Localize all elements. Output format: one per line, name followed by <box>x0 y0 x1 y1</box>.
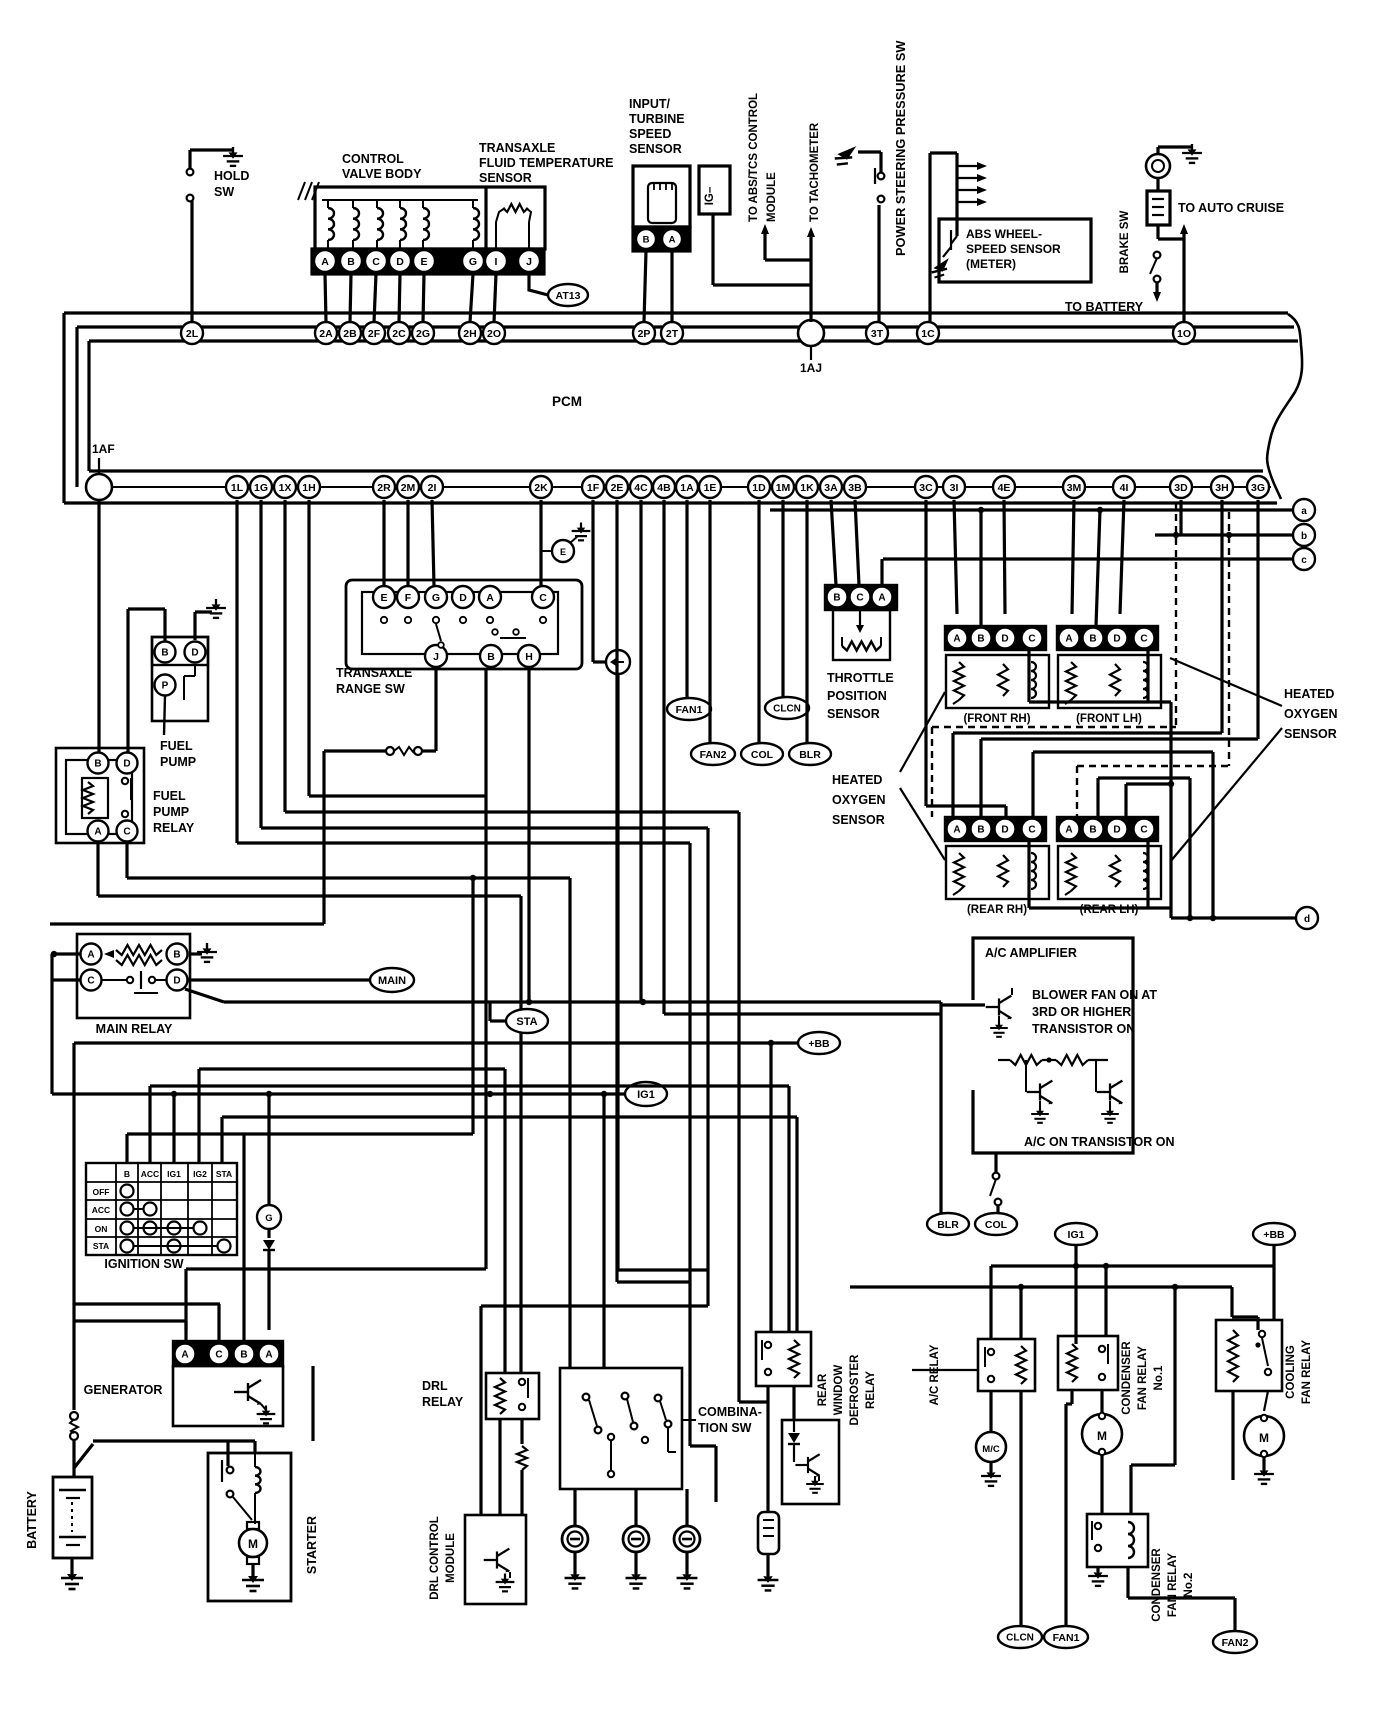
svg-text:C: C <box>1028 634 1035 645</box>
svg-text:B: B <box>124 1169 130 1179</box>
svg-text:H: H <box>525 651 533 663</box>
svg-text:OXYGEN: OXYGEN <box>1284 707 1338 721</box>
svg-text:B: B <box>977 634 984 645</box>
svg-text:FAN RELAY: FAN RELAY <box>1167 1553 1179 1617</box>
svg-text:CONDENSER: CONDENSER <box>1121 1341 1133 1415</box>
svg-text:(REAR LH): (REAR LH) <box>1080 904 1139 916</box>
svg-text:D: D <box>1113 634 1120 645</box>
svg-text:B: B <box>643 234 650 245</box>
svg-text:1G: 1G <box>254 482 268 494</box>
svg-text:a: a <box>1301 506 1307 517</box>
svg-text:DEFROSTER: DEFROSTER <box>849 1354 861 1426</box>
svg-text:D: D <box>173 976 180 987</box>
svg-text:1L: 1L <box>231 482 244 494</box>
svg-text:B: B <box>94 759 101 770</box>
svg-text:FAN2: FAN2 <box>1222 1637 1249 1649</box>
svg-text:D: D <box>123 759 130 770</box>
svg-text:2P: 2P <box>638 328 651 340</box>
svg-text:REAR: REAR <box>817 1373 829 1406</box>
svg-text:STA: STA <box>516 1016 537 1028</box>
svg-text:FAN2: FAN2 <box>700 749 727 761</box>
svg-text:OXYGEN: OXYGEN <box>832 793 886 807</box>
svg-text:MAIN RELAY: MAIN RELAY <box>96 1022 173 1036</box>
svg-text:TO TACHOMETER: TO TACHOMETER <box>809 122 821 222</box>
svg-text:MAIN: MAIN <box>378 975 406 987</box>
svg-text:M: M <box>1259 1431 1269 1445</box>
svg-text:COOLING: COOLING <box>1285 1345 1297 1399</box>
svg-text:3H: 3H <box>1215 482 1228 494</box>
svg-text:SENSOR: SENSOR <box>479 171 532 185</box>
svg-text:A/C RELAY: A/C RELAY <box>929 1344 941 1405</box>
svg-text:IG1: IG1 <box>637 1089 655 1101</box>
svg-text:4C: 4C <box>634 482 648 494</box>
svg-text:PCM: PCM <box>552 394 582 409</box>
svg-text:WINDOW: WINDOW <box>833 1365 845 1416</box>
svg-text:SPEED SENSOR: SPEED SENSOR <box>966 242 1061 256</box>
svg-text:OFF: OFF <box>93 1187 110 1197</box>
svg-text:1AJ: 1AJ <box>800 361 822 375</box>
svg-text:1F: 1F <box>587 482 600 494</box>
svg-text:C: C <box>372 256 380 268</box>
svg-text:D: D <box>459 592 467 604</box>
svg-text:2G: 2G <box>416 328 430 340</box>
svg-text:2K: 2K <box>534 482 548 494</box>
svg-text:E: E <box>380 592 387 604</box>
svg-text:4B: 4B <box>657 482 671 494</box>
svg-text:3RD OR HIGHER: 3RD OR HIGHER <box>1032 1005 1131 1019</box>
svg-text:2A: 2A <box>319 328 333 340</box>
svg-text:PUMP: PUMP <box>153 805 189 819</box>
svg-text:J: J <box>433 651 439 663</box>
svg-text:TRANSAXLE: TRANSAXLE <box>336 666 412 680</box>
svg-text:CLCN: CLCN <box>1006 1633 1034 1644</box>
svg-text:DRL: DRL <box>422 1379 448 1393</box>
svg-text:IG2: IG2 <box>193 1169 207 1179</box>
svg-text:HEATED: HEATED <box>832 773 882 787</box>
svg-text:G: G <box>469 256 477 268</box>
svg-text:RANGE SW: RANGE SW <box>336 682 405 696</box>
svg-text:FUEL: FUEL <box>153 789 186 803</box>
svg-text:STA: STA <box>216 1169 232 1179</box>
svg-text:3D: 3D <box>1174 482 1188 494</box>
svg-text:FAN1: FAN1 <box>1053 1632 1080 1644</box>
svg-text:A: A <box>669 234 676 245</box>
svg-text:COL: COL <box>751 749 774 761</box>
svg-text:1H: 1H <box>302 482 315 494</box>
svg-text:THROTTLE: THROTTLE <box>827 671 894 685</box>
svg-text:BLOWER FAN ON AT: BLOWER FAN ON AT <box>1032 988 1157 1002</box>
svg-text:POSITION: POSITION <box>827 689 887 703</box>
svg-text:c: c <box>1301 555 1307 566</box>
svg-text:TRANSISTOR ON: TRANSISTOR ON <box>1032 1022 1135 1036</box>
svg-text:FLUID TEMPERATURE: FLUID TEMPERATURE <box>479 156 614 170</box>
svg-text:A: A <box>1065 825 1072 836</box>
svg-text:INPUT/: INPUT/ <box>629 97 671 111</box>
svg-text:COL: COL <box>985 1219 1008 1231</box>
svg-text:1D: 1D <box>752 482 766 494</box>
svg-text:A: A <box>953 825 960 836</box>
svg-text:C: C <box>87 976 94 987</box>
svg-text:BRAKE SW: BRAKE SW <box>1119 211 1131 274</box>
svg-text:2B: 2B <box>343 328 357 340</box>
svg-text:b: b <box>1301 531 1307 542</box>
svg-text:3C: 3C <box>919 482 933 494</box>
svg-text:+BB: +BB <box>1263 1229 1285 1241</box>
svg-text:STARTER: STARTER <box>305 1516 319 1574</box>
svg-text:IG1: IG1 <box>167 1169 181 1179</box>
svg-text:M/C: M/C <box>982 1444 1000 1455</box>
svg-text:MODULE: MODULE <box>445 1533 457 1583</box>
svg-text:VALVE BODY: VALVE BODY <box>342 167 422 181</box>
svg-text:D: D <box>396 256 404 268</box>
svg-text:P: P <box>162 681 169 692</box>
svg-text:MODULE: MODULE <box>766 172 778 222</box>
svg-text:ACC: ACC <box>141 1169 159 1179</box>
svg-text:D: D <box>1113 825 1120 836</box>
svg-text:B: B <box>833 593 840 604</box>
svg-text:G: G <box>265 1213 272 1224</box>
svg-text:COMBINA-: COMBINA- <box>698 1405 762 1419</box>
svg-text:TURBINE: TURBINE <box>629 112 685 126</box>
svg-text:BLR: BLR <box>799 749 821 761</box>
svg-text:A/C AMPLIFIER: A/C AMPLIFIER <box>985 946 1077 960</box>
svg-text:HEATED: HEATED <box>1284 687 1334 701</box>
svg-text:FUEL: FUEL <box>160 739 193 753</box>
svg-text:C: C <box>1028 825 1035 836</box>
svg-text:SENSOR: SENSOR <box>832 813 885 827</box>
svg-text:D: D <box>1001 825 1008 836</box>
svg-text:BATTERY: BATTERY <box>25 1491 39 1549</box>
svg-text:2M: 2M <box>401 482 416 494</box>
svg-text:I: I <box>495 256 498 268</box>
svg-text:IGNITION SW: IGNITION SW <box>104 1257 183 1271</box>
svg-text:C: C <box>539 592 547 604</box>
svg-text:HOLD: HOLD <box>214 169 249 183</box>
svg-text:B: B <box>173 950 180 961</box>
svg-text:RELAY: RELAY <box>153 821 195 835</box>
svg-text:D: D <box>1001 634 1008 645</box>
svg-text:2H: 2H <box>463 328 476 340</box>
svg-text:SPEED: SPEED <box>629 127 671 141</box>
svg-text:A: A <box>321 256 329 268</box>
svg-text:G: G <box>432 592 440 604</box>
svg-text:2I: 2I <box>428 482 437 494</box>
svg-text:2O: 2O <box>487 328 501 340</box>
svg-text:C: C <box>856 593 863 604</box>
svg-text:B: B <box>977 825 984 836</box>
svg-text:SW: SW <box>214 185 234 199</box>
svg-text:A/C ON TRANSISTOR ON: A/C ON TRANSISTOR ON <box>1024 1135 1174 1149</box>
svg-text:A: A <box>1065 634 1072 645</box>
svg-text:No.1: No.1 <box>1153 1365 1165 1391</box>
svg-text:1M: 1M <box>776 482 791 494</box>
svg-text:B: B <box>347 256 355 268</box>
svg-text:E: E <box>420 256 427 268</box>
svg-text:2L: 2L <box>186 328 199 340</box>
svg-text:1K: 1K <box>800 482 814 494</box>
svg-text:RELAY: RELAY <box>865 1371 877 1409</box>
svg-text:4I: 4I <box>1120 482 1129 494</box>
svg-text:3M: 3M <box>1067 482 1082 494</box>
svg-text:TION SW: TION SW <box>698 1421 752 1435</box>
svg-text:4E: 4E <box>998 482 1011 494</box>
svg-text:C: C <box>1140 825 1147 836</box>
svg-text:STA: STA <box>93 1241 109 1251</box>
svg-text:3B: 3B <box>848 482 862 494</box>
svg-text:CONTROL: CONTROL <box>342 152 404 166</box>
svg-text:BLR: BLR <box>937 1219 959 1231</box>
svg-text:(FRONT RH): (FRONT RH) <box>963 713 1030 725</box>
svg-text:SENSOR: SENSOR <box>827 707 880 721</box>
svg-text:J: J <box>526 256 532 268</box>
svg-text:2E: 2E <box>611 482 624 494</box>
svg-text:D: D <box>191 648 198 659</box>
svg-text:3T: 3T <box>871 328 884 340</box>
svg-text:A: A <box>94 827 101 838</box>
svg-text:GENERATOR: GENERATOR <box>84 1383 163 1397</box>
svg-text:TRANSAXLE: TRANSAXLE <box>479 141 555 155</box>
svg-text:CLCN: CLCN <box>773 704 801 715</box>
svg-text:RELAY: RELAY <box>422 1395 464 1409</box>
svg-text:DRL CONTROL: DRL CONTROL <box>429 1516 441 1599</box>
svg-text:ON: ON <box>95 1224 108 1234</box>
svg-text:1E: 1E <box>704 482 717 494</box>
svg-text:C: C <box>215 1350 222 1361</box>
svg-text:M: M <box>248 1537 258 1551</box>
svg-text:TO AUTO CRUISE: TO AUTO CRUISE <box>1178 201 1284 215</box>
svg-text:C: C <box>1140 634 1147 645</box>
svg-text:TO ABS/TCS CONTROL: TO ABS/TCS CONTROL <box>748 93 760 222</box>
svg-text:A: A <box>181 1350 188 1361</box>
svg-text:3A: 3A <box>824 482 838 494</box>
svg-text:B: B <box>161 648 168 659</box>
svg-text:B: B <box>240 1350 247 1361</box>
svg-text:A: A <box>953 634 960 645</box>
svg-text:B: B <box>487 651 495 663</box>
svg-text:POWER STEERING PRESSURE SW: POWER STEERING PRESSURE SW <box>893 40 908 256</box>
svg-text:IG–: IG– <box>704 186 716 205</box>
svg-text:ACC: ACC <box>92 1205 110 1215</box>
svg-text:E: E <box>560 547 566 557</box>
svg-text:No.2: No.2 <box>1183 1573 1195 1598</box>
svg-text:+BB: +BB <box>808 1038 830 1050</box>
svg-text:A: A <box>878 593 885 604</box>
svg-text:(METER): (METER) <box>966 257 1016 271</box>
svg-text:C: C <box>123 827 130 838</box>
svg-text:F: F <box>405 592 412 604</box>
svg-text:(REAR RH): (REAR RH) <box>967 904 1027 916</box>
svg-text:B: B <box>1089 634 1096 645</box>
svg-text:A: A <box>486 592 494 604</box>
svg-text:2F: 2F <box>368 328 381 340</box>
svg-text:SENSOR: SENSOR <box>629 142 682 156</box>
svg-text:B: B <box>1089 825 1096 836</box>
svg-text:CONDENSER: CONDENSER <box>1151 1548 1163 1622</box>
svg-text:FAN1: FAN1 <box>676 704 703 716</box>
svg-text:2T: 2T <box>666 328 679 340</box>
svg-text:IG1: IG1 <box>1068 1229 1085 1241</box>
svg-text:1X: 1X <box>279 482 292 494</box>
svg-text:2R: 2R <box>377 482 391 494</box>
svg-text:SENSOR: SENSOR <box>1284 727 1337 741</box>
svg-text:d: d <box>1304 914 1310 925</box>
svg-text:TO BATTERY: TO BATTERY <box>1065 300 1144 314</box>
svg-text:FAN RELAY: FAN RELAY <box>1301 1340 1313 1404</box>
svg-text:1AF: 1AF <box>92 442 115 456</box>
svg-text:2C: 2C <box>392 328 406 340</box>
svg-text:1A: 1A <box>680 482 694 494</box>
svg-text:3G: 3G <box>1251 482 1265 494</box>
svg-text:M: M <box>1097 1429 1107 1443</box>
svg-text:ABS WHEEL-: ABS WHEEL- <box>966 227 1042 241</box>
svg-text:1O: 1O <box>1177 328 1191 340</box>
svg-text:A: A <box>87 950 94 961</box>
svg-text:A: A <box>265 1350 272 1361</box>
svg-text:AT13: AT13 <box>556 290 581 302</box>
svg-text:FAN RELAY: FAN RELAY <box>1137 1346 1149 1410</box>
svg-text:(FRONT LH): (FRONT LH) <box>1076 713 1142 725</box>
svg-text:3I: 3I <box>950 482 959 494</box>
svg-text:PUMP: PUMP <box>160 755 196 769</box>
svg-text:1C: 1C <box>921 328 935 340</box>
